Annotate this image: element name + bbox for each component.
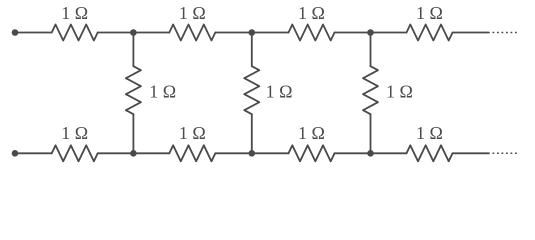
wire shunt branch 3: R11 down to node N6 [370,114,372,153]
resistor R6 (1 ohm, bottom rail) [169,145,215,161]
node N3 (top) junction dot [367,29,374,36]
resistor R3 (1 ohm, top rail) [289,25,335,41]
wire bottom rail: R7 to node N6 [335,152,407,154]
resistor R4 (1 ohm, top rail) [407,25,453,41]
svg-text:1 Ω: 1 Ω [266,82,293,102]
wire shunt branch 1: R9 down to node N4 [132,114,134,153]
svg-text:1 Ω: 1 Ω [298,123,325,143]
wire top rail: R3 to node N3 [335,32,407,34]
svg-text:1 Ω: 1 Ω [298,3,325,23]
wire top rail: R1 to node N1 [98,32,170,34]
svg-text:1 Ω: 1 Ω [386,82,413,102]
resistor R7 (1 ohm, bottom rail) [289,145,335,161]
wire shunt branch 1: node N1 down to R9 [132,33,134,67]
terminal dot, bottom-left input [12,150,19,157]
wire top rail: R2 to node N2 [215,32,288,34]
dotted continuation of top rail [493,32,519,34]
node N4 (bottom) junction dot [130,150,137,157]
wire top rail: R4 to continuation [453,32,490,34]
node N2 (top) junction dot [249,29,256,36]
resistor R2 (1 ohm, top rail) [169,25,215,41]
wire shunt branch 2: R10 down to node N5 [251,114,253,153]
wire bottom rail: terminal to R5 [15,152,52,154]
wire shunt branch 2: node N2 down to R10 [251,33,253,67]
svg-text:1 Ω: 1 Ω [179,123,206,143]
svg-text:1 Ω: 1 Ω [149,82,176,102]
resistor R11 (1 ohm, shunt) [363,66,378,114]
wire bottom rail: R6 to node N5 [215,152,288,154]
svg-text:1 Ω: 1 Ω [61,123,88,143]
wire shunt branch 3: node N3 down to R11 [370,33,372,67]
node N5 (bottom) junction dot [249,150,256,157]
resistor R10 (1 ohm, shunt) [244,66,259,114]
wire bottom rail: R8 to continuation [453,152,490,154]
dotted continuation of bottom rail [493,152,519,154]
node N1 (top) junction dot [130,29,137,36]
wire top rail: terminal to R1 [15,32,52,34]
svg-text:1 Ω: 1 Ω [179,3,206,23]
resistor R9 (1 ohm, shunt) [126,66,141,114]
terminal dot, top-left input [12,29,19,36]
svg-text:1 Ω: 1 Ω [416,123,443,143]
wire bottom rail: R5 to node N4 [98,152,170,154]
svg-text:1 Ω: 1 Ω [61,3,88,23]
resistor R5 (1 ohm, bottom rail) [52,145,98,161]
svg-text:1 Ω: 1 Ω [416,3,443,23]
resistor R8 (1 ohm, bottom rail) [407,145,453,161]
node N6 (bottom) junction dot [367,150,374,157]
resistor R1 (1 ohm, top rail) [52,25,98,41]
